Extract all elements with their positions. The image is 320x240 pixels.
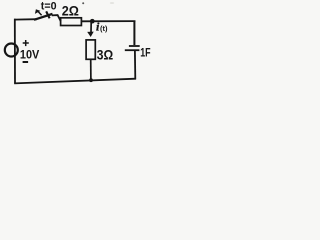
svg-text:1F: 1F	[140, 46, 151, 60]
label + polarity	[23, 40, 29, 46]
scan speckle	[82, 2, 84, 4]
capacitor C1 top plate	[129, 45, 140, 47]
svg-text:2Ω: 2Ω	[62, 2, 79, 18]
wire: left vertical through source	[14, 19, 16, 84]
voltage source V1 circle	[5, 44, 18, 57]
svg-text:10V: 10V	[20, 47, 39, 61]
label - polarity	[23, 61, 29, 63]
svg-text:3Ω: 3Ω	[97, 47, 113, 63]
switch S (opens at t=0): blade	[34, 14, 53, 20]
wire: node A down to resistor R2 with current arrow i(t)	[87, 21, 94, 37]
scan smudge	[110, 2, 114, 4]
node B junction dot	[89, 78, 93, 82]
label i(t)	[96, 20, 108, 34]
switch S: cross stroke	[46, 11, 49, 18]
wire: resistor R2 to bottom	[90, 59, 92, 80]
switch S: opening arrow	[35, 9, 42, 15]
wire: capacitor C1 to bottom-right corner	[134, 51, 136, 79]
resistor R1 2ohm box	[61, 18, 82, 26]
svg-text:t=0: t=0	[41, 1, 57, 13]
capacitor C1 bottom plate	[125, 49, 140, 51]
node A junction dot	[90, 19, 95, 24]
wire: right vertical top (to capacitor C1)	[133, 21, 135, 46]
svg-text:(t): (t)	[100, 24, 108, 33]
wire: switch to resistor R1	[52, 15, 61, 21]
resistor R2 3ohm box (vertical)	[86, 40, 95, 59]
wire: bottom horizontal	[14, 79, 136, 84]
wire: top-left horizontal	[14, 18, 37, 20]
wire: resistor R1 to top-right corner	[81, 20, 135, 22]
